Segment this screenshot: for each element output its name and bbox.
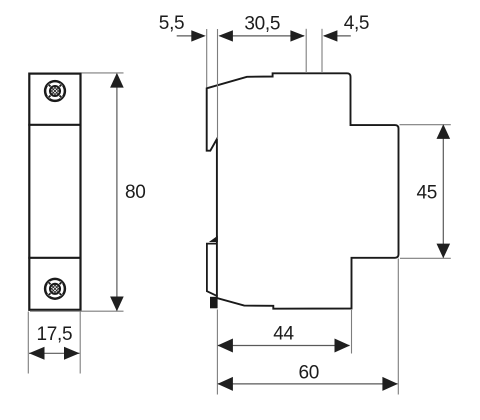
- svg-text:44: 44: [273, 324, 294, 345]
- extension line 44 right: [351, 310, 353, 354]
- dimension line 45: [442, 126, 444, 258]
- arrow left 4,5: [323, 30, 338, 41]
- DIN clip box: [207, 244, 218, 297]
- extension line 4,5 right: [321, 29, 323, 73]
- dimension line 44: [218, 345, 350, 347]
- svg-text:5,5: 5,5: [159, 13, 185, 34]
- screw terminal bottom: [45, 277, 65, 300]
- dimension line 60: [218, 383, 398, 385]
- arrow left 30,5: [218, 30, 233, 41]
- extension line left of 17,5 dim: [27, 312, 29, 374]
- dimension line 5,5: [177, 35, 204, 37]
- extension line top of 80 dim: [82, 72, 124, 74]
- DIN clip hook: [210, 297, 218, 309]
- arrow left 17,5: [29, 347, 45, 360]
- dimension line 80: [116, 74, 118, 311]
- arrow up 80: [110, 73, 124, 88]
- svg-text:45: 45: [417, 182, 438, 203]
- front view divider line upper: [28, 124, 81, 126]
- svg-text:80: 80: [125, 182, 146, 203]
- arrow right 30,5: [290, 30, 305, 41]
- extension line 45 bottom: [400, 257, 451, 259]
- arrow left 44: [217, 339, 233, 353]
- extension line bottom of 80 dim: [30, 310, 124, 312]
- arrow down 45: [437, 244, 451, 259]
- svg-text:4,5: 4,5: [344, 13, 370, 34]
- arrow up 45: [437, 124, 451, 139]
- arrow right 44: [335, 339, 351, 353]
- front view body outline: [29, 74, 80, 310]
- extension line 60 right: [397, 259, 399, 395]
- extension line right of 17,5 dim: [79, 312, 81, 374]
- arrow right 17,5: [64, 347, 80, 360]
- svg-text:17,5: 17,5: [37, 324, 73, 345]
- dimension line 4,5: [324, 35, 351, 37]
- extension line 45 top: [400, 124, 451, 126]
- arrow right 5,5: [191, 30, 206, 41]
- dimension line 17,5: [29, 352, 80, 354]
- extension line 44-60 left: [216, 310, 218, 395]
- svg-text:30,5: 30,5: [244, 14, 280, 35]
- extension line 5,5 left: [206, 29, 208, 88]
- arrow left 60: [217, 377, 233, 391]
- front view divider line lower: [28, 257, 81, 259]
- extension line 4,5 left: [305, 29, 307, 73]
- screw terminal top: [45, 80, 65, 103]
- svg-text:60: 60: [299, 363, 320, 384]
- extension line 30,5 left: [217, 29, 219, 139]
- arrow right 60: [382, 377, 398, 391]
- dimension line 30,5: [220, 35, 305, 37]
- DIN clip wedge: [209, 236, 218, 242]
- side view main profile: [207, 73, 399, 308]
- arrow down 80: [110, 297, 124, 312]
